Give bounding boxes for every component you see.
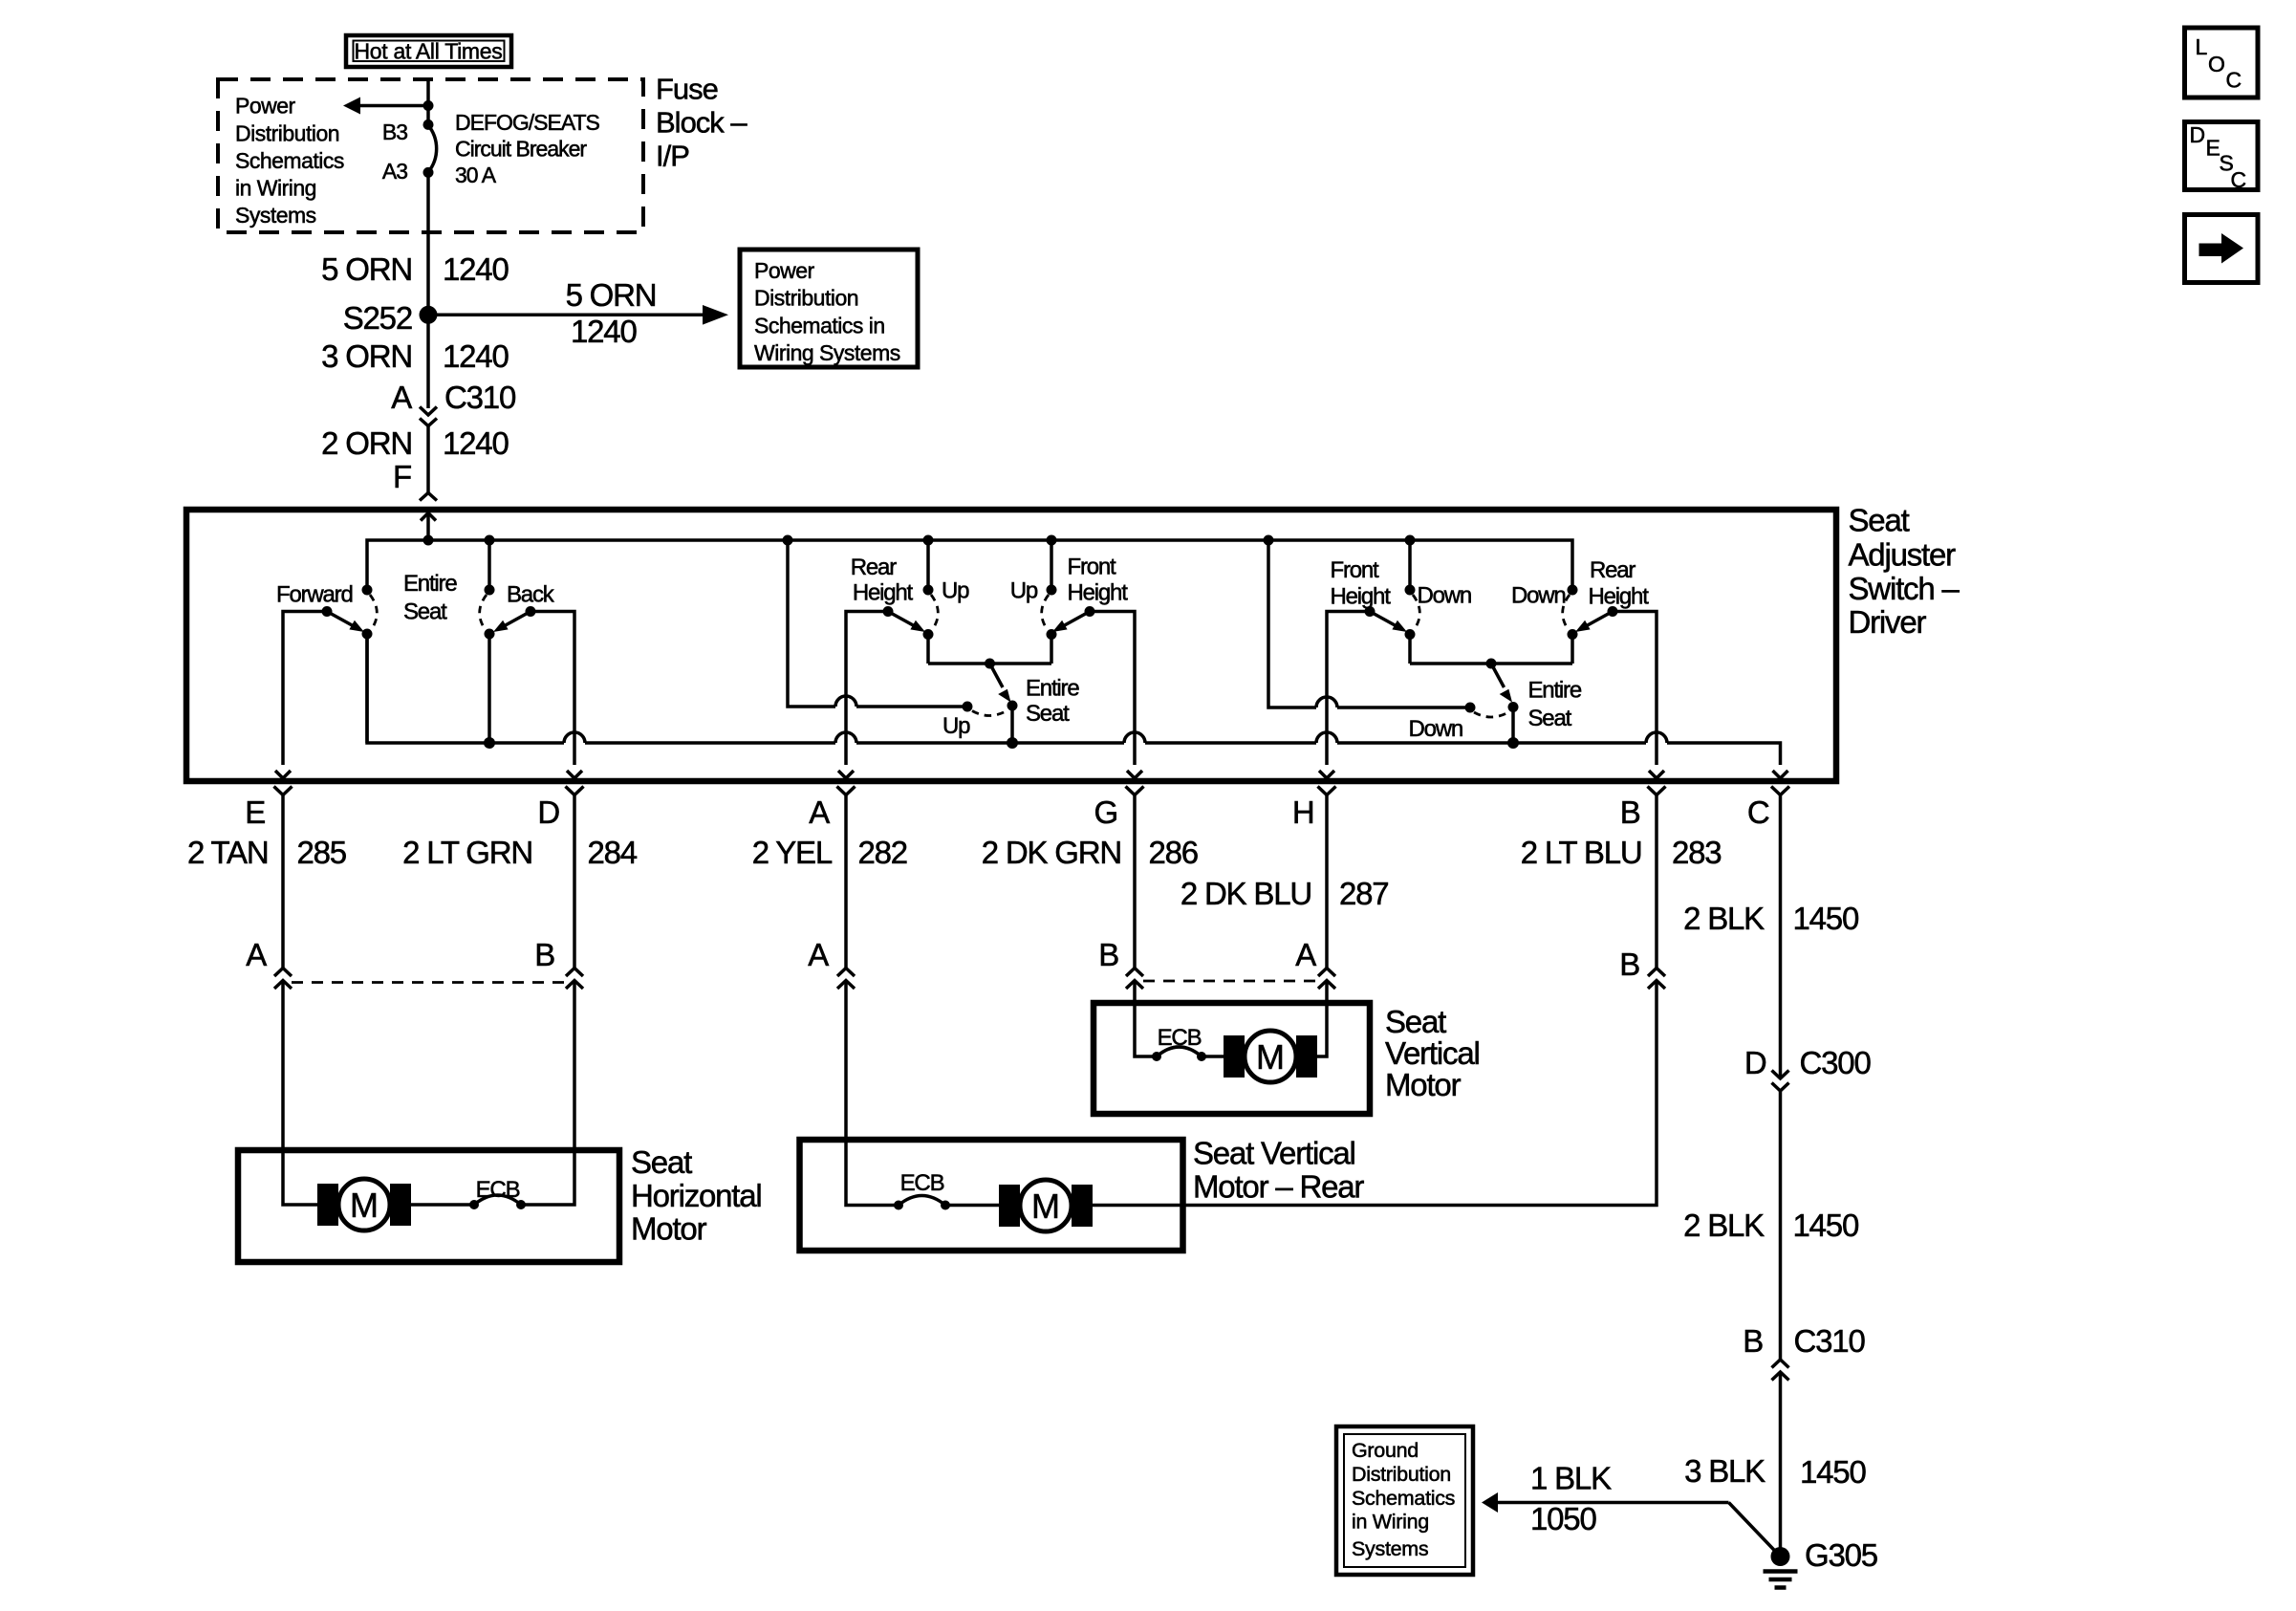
svg-text:A: A (246, 937, 267, 972)
LOC index box (2185, 28, 2259, 98)
wire: 1 BLK 1050 from ground distribution (1482, 1461, 1781, 1557)
wire H continues into vertical motor (1317, 981, 1327, 1057)
wire: 2 BLK 1450 (lower) (1683, 1091, 1859, 1360)
svg-text:Schematics in: Schematics in (754, 313, 885, 337)
svg-text:1240: 1240 (443, 338, 509, 374)
svg-text:Front: Front (1068, 555, 1117, 580)
svg-text:Height: Height (853, 580, 914, 606)
wire A down (844, 795, 848, 969)
wire E down to seat horizontal motor (281, 795, 285, 969)
svg-text:Seat: Seat (1528, 706, 1572, 731)
wire B down (1655, 795, 1658, 969)
svg-text:S252: S252 (343, 300, 412, 336)
svg-text:Block –: Block – (656, 106, 747, 140)
wire: internal top bus (367, 540, 1572, 590)
svg-text:D: D (2190, 122, 2205, 147)
svg-text:Rear: Rear (851, 555, 897, 580)
ECB in seat horizontal motor (411, 1177, 526, 1209)
dashed connector line G-H (1143, 980, 1317, 983)
circuit breaker DEFOG/SEATS 30 A (428, 125, 437, 172)
svg-text:Systems: Systems (235, 203, 316, 228)
svg-text:283: 283 (1672, 835, 1721, 870)
svg-text:B: B (1743, 1323, 1763, 1359)
pin B3 (382, 120, 434, 144)
svg-text:A3: A3 (382, 159, 407, 184)
svg-text:M: M (1031, 1186, 1060, 1226)
svg-text:285: 285 (297, 835, 346, 870)
svg-text:F: F (393, 459, 411, 494)
svg-text:286: 286 (1149, 835, 1198, 870)
svg-text:2 BLK: 2 BLK (1683, 1208, 1765, 1243)
svg-text:Rear: Rear (1590, 557, 1635, 583)
svg-text:3 BLK: 3 BLK (1684, 1453, 1765, 1489)
svg-text:Entire: Entire (1026, 676, 1079, 702)
svg-text:C: C (2226, 68, 2242, 93)
svg-text:Height: Height (1331, 584, 1392, 610)
svg-text:Seat: Seat (403, 599, 447, 625)
svg-text:Up: Up (942, 578, 969, 604)
switch: Rear Height Down (1511, 557, 1649, 664)
svg-text:5 ORN: 5 ORN (321, 251, 412, 287)
svg-text:D: D (537, 795, 559, 830)
svg-text:Height: Height (1068, 580, 1129, 606)
wire D continues into motor (521, 981, 574, 1206)
svg-text:1450: 1450 (1793, 1208, 1859, 1243)
svg-text:5 ORN: 5 ORN (566, 277, 657, 313)
svg-text:B: B (534, 937, 554, 972)
svg-text:G: G (1094, 795, 1117, 830)
svg-text:Schematics: Schematics (235, 148, 344, 173)
svg-text:DEFOG/SEATS: DEFOG/SEATS (455, 110, 600, 135)
svg-text:Switch –: Switch – (1849, 571, 1960, 606)
svg-text:1240: 1240 (443, 425, 509, 461)
wire B continues down and left to motor rear (1093, 981, 1657, 1206)
svg-text:Adjuster: Adjuster (1849, 536, 1957, 572)
ECB in seat vertical motor (1152, 1025, 1245, 1061)
connector C300 pin D (1744, 1045, 1872, 1091)
svg-text:Power: Power (754, 258, 815, 283)
svg-text:Entire: Entire (1528, 678, 1582, 704)
label: 5 ORN 1240 (321, 251, 509, 287)
ECB in seat vertical motor rear (894, 1170, 1020, 1210)
svg-text:Seat: Seat (1849, 502, 1910, 537)
wire H down (1325, 795, 1329, 969)
label: Seat Adjuster Switch - Driver (1849, 502, 1960, 640)
motor M symbol: seat vertical motor (1224, 1031, 1317, 1082)
svg-text:30 A: 30 A (455, 163, 497, 187)
svg-text:Power: Power (235, 94, 296, 119)
connector C310 pin A (391, 380, 516, 426)
svg-text:C300: C300 (1800, 1045, 1872, 1080)
switch: Entire Seat Up (928, 659, 1079, 750)
switch pin letters E D A G H B C (245, 795, 1769, 830)
svg-text:Driver: Driver (1849, 604, 1927, 640)
wire: 5 ORN 1240 branch to Power Distribution (right arrow) (428, 277, 728, 349)
svg-text:1450: 1450 (1793, 901, 1859, 936)
wire: F entry arrow into switch box (421, 513, 436, 541)
wire: 3 ORN 1240 below S252 (321, 315, 509, 408)
splice S252 (343, 300, 438, 336)
motor box: Seat Horizontal Motor (238, 1144, 762, 1262)
svg-text:D: D (1744, 1045, 1766, 1080)
svg-text:B: B (1619, 947, 1639, 982)
wire D down (573, 795, 576, 969)
dashed connector line E-D (292, 981, 566, 984)
svg-text:2 BLK: 2 BLK (1683, 901, 1765, 936)
svg-text:Motor – Rear: Motor – Rear (1193, 1169, 1364, 1205)
wire: Front Height Up common to G exit (1090, 612, 1135, 766)
svg-text:G305: G305 (1805, 1537, 1877, 1573)
svg-text:O: O (2208, 52, 2224, 76)
wire: Rear Height Down common to B exit (1613, 612, 1657, 766)
wire: internal bottom bus with hops (367, 634, 1781, 765)
switch: Entire Seat Down (1408, 659, 1581, 750)
svg-text:Vertical: Vertical (1385, 1035, 1480, 1071)
svg-text:Schematics: Schematics (1352, 1487, 1455, 1510)
wire labels row: 2 TAN 285 / 2 LT GRN 284 / 2 YEL 282 / 2 DK GRN 286 / 2 LT BLU 283 (187, 835, 1721, 870)
ground G305 (1764, 1537, 1877, 1588)
svg-text:B: B (1620, 795, 1640, 830)
svg-text:1450: 1450 (1800, 1454, 1866, 1490)
svg-text:Seat: Seat (1385, 1004, 1446, 1039)
pin F of seat adjuster switch (393, 459, 437, 501)
label: Entire Seat (horizontal) (403, 571, 457, 625)
svg-text:Motor: Motor (631, 1211, 707, 1247)
svg-text:C: C (1747, 795, 1769, 830)
seat adjuster switch driver box (186, 510, 1836, 781)
svg-text:Entire: Entire (403, 571, 457, 597)
svg-text:Circuit Breaker: Circuit Breaker (455, 136, 587, 161)
svg-text:Forward: Forward (276, 581, 353, 607)
note: Power Distribution Schematics in Wiring Systems (in fuse block) (235, 94, 344, 229)
svg-text:2 ORN: 2 ORN (321, 425, 412, 461)
svg-text:A: A (809, 795, 830, 830)
connector C310 pin B (1743, 1323, 1865, 1381)
svg-text:Seat Vertical: Seat Vertical (1193, 1136, 1355, 1171)
wire: Front Height Down common to H exit (1327, 612, 1370, 766)
switch: Front Height Up (1010, 540, 1128, 664)
svg-text:H: H (1292, 795, 1314, 830)
svg-text:M: M (1256, 1037, 1285, 1077)
svg-text:Down: Down (1418, 583, 1472, 609)
motor M symbol: seat horizontal motor (317, 1179, 411, 1230)
wire: feed from Hot at All Times down (426, 80, 430, 124)
svg-text:Back: Back (507, 581, 555, 607)
switch: Back (480, 540, 555, 749)
svg-text:ECB: ECB (900, 1170, 944, 1196)
switch: Rear Height Up (851, 540, 969, 664)
wire: 5 ORN 1240 from A3 to S252 (426, 172, 430, 315)
motor box: Seat Vertical Motor - Rear (800, 1136, 1365, 1251)
svg-text:Wiring Systems: Wiring Systems (754, 340, 900, 365)
svg-text:E: E (2206, 136, 2220, 161)
svg-text:Height: Height (1589, 584, 1650, 610)
switch: Forward (276, 581, 377, 743)
svg-text:L: L (2196, 34, 2208, 59)
svg-text:A: A (391, 380, 412, 415)
svg-text:E: E (245, 795, 265, 830)
svg-text:Motor: Motor (1385, 1067, 1462, 1102)
wire: Forward common to E exit (283, 612, 327, 766)
svg-text:Ground: Ground (1352, 1439, 1419, 1462)
svg-text:M: M (350, 1186, 379, 1225)
svg-text:in Wiring: in Wiring (235, 176, 316, 201)
wire: Back common to D exit (531, 612, 574, 766)
motor M symbol: seat vertical motor rear (999, 1180, 1093, 1231)
label: DEFOG/SEATS Circuit Breaker 30 A (455, 110, 600, 187)
svg-text:2 DK GRN: 2 DK GRN (982, 835, 1121, 870)
arrow index box (2185, 215, 2259, 283)
note box: Ground Distribution Schematics in Wiring Systems (1336, 1426, 1473, 1575)
svg-text:I/P: I/P (656, 140, 689, 173)
wire G down (1133, 795, 1137, 969)
svg-text:A: A (808, 937, 829, 972)
svg-text:C310: C310 (1794, 1323, 1866, 1359)
wire A continues into motor rear (846, 981, 899, 1206)
wire: 3 BLK 1450 to ground (1684, 1372, 1866, 1557)
note box: Power Distribution Schematics in Wiring Systems (right) (740, 250, 918, 367)
wire: down-group feed from bus (1268, 540, 1476, 713)
DESC index box (2185, 122, 2259, 193)
motor connector double chevrons (274, 969, 1665, 990)
wire label: 2 BLK 1450 (upper) (1683, 901, 1859, 936)
wire C down from switch (1779, 795, 1783, 1079)
switch: Front Height Down (1331, 540, 1472, 664)
svg-text:2 YEL: 2 YEL (752, 835, 833, 870)
svg-text:1240: 1240 (443, 251, 509, 287)
label box: Hot at All Times (346, 35, 511, 67)
svg-text:2 LT GRN: 2 LT GRN (402, 835, 532, 870)
svg-text:Fuse: Fuse (656, 73, 718, 106)
wire G continues into vertical motor (1135, 981, 1157, 1057)
svg-text:C: C (2231, 167, 2246, 192)
svg-text:Up: Up (1010, 578, 1038, 604)
svg-text:282: 282 (858, 835, 907, 870)
motor connector letters (246, 937, 1639, 982)
svg-text:C310: C310 (444, 380, 516, 415)
svg-text:A: A (1295, 937, 1316, 972)
svg-text:Front: Front (1331, 557, 1380, 583)
wire: arrow to Power Distribution Schematics (left) (343, 98, 434, 115)
svg-text:2 TAN: 2 TAN (187, 835, 268, 870)
wire E continues into motor (283, 981, 317, 1206)
svg-text:Seat: Seat (1026, 701, 1070, 727)
wire label: 2 DK BLU 287 (1180, 876, 1389, 911)
svg-text:B3: B3 (382, 120, 407, 144)
label: Fuse Block - I/P (656, 73, 747, 173)
svg-text:1240: 1240 (571, 314, 637, 349)
svg-text:2 DK BLU: 2 DK BLU (1180, 876, 1311, 911)
svg-text:1050: 1050 (1530, 1501, 1596, 1536)
wire: exit arrows at box bottom (275, 771, 1788, 778)
wire: up-group feed from bus (788, 540, 973, 712)
svg-text:Hot at All Times: Hot at All Times (355, 39, 503, 64)
svg-text:1 BLK: 1 BLK (1530, 1461, 1612, 1496)
svg-text:Horizontal: Horizontal (631, 1178, 762, 1213)
fuse block I/P dashed box (218, 79, 643, 232)
svg-text:B: B (1098, 937, 1118, 972)
svg-text:Down: Down (1511, 583, 1566, 609)
svg-text:in Wiring: in Wiring (1352, 1511, 1429, 1534)
svg-text:287: 287 (1339, 876, 1388, 911)
connector chevrons below switch box (274, 787, 1790, 795)
svg-text:284: 284 (588, 835, 638, 870)
svg-text:Distribution: Distribution (754, 286, 858, 311)
svg-text:Down: Down (1408, 716, 1462, 742)
wire: 2 ORN 1240 (321, 425, 509, 493)
node: top bus junctions (423, 535, 1416, 546)
svg-text:2 LT BLU: 2 LT BLU (1521, 835, 1642, 870)
svg-text:Seat: Seat (631, 1144, 692, 1180)
svg-text:Distribution: Distribution (1352, 1463, 1451, 1486)
svg-text:Distribution: Distribution (235, 120, 339, 145)
svg-text:Up: Up (942, 713, 970, 739)
motor box: Seat Vertical Motor (1094, 1003, 1480, 1114)
wire: Rear Height Up common to A exit (846, 612, 888, 766)
svg-text:Systems: Systems (1352, 1537, 1428, 1560)
pin A3 (382, 159, 434, 184)
svg-text:3 ORN: 3 ORN (321, 338, 412, 374)
